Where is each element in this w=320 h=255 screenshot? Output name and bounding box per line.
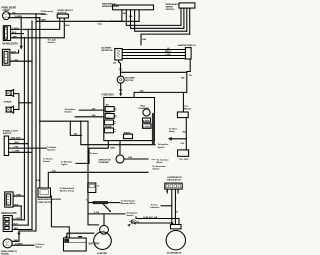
- svg-text:BLK: BLK: [65, 25, 70, 27]
- bc4 label: [14, 224, 19, 226]
- resistor wire bar: [93, 201, 108, 204]
- resistor bar stub: [88, 202, 93, 204]
- junction dot solenoid: [103, 213, 104, 214]
- junction dot lamp riser: [18, 230, 19, 231]
- to ignition switch label (right): [158, 143, 169, 149]
- blower ground ticks: [119, 89, 122, 90]
- entry labels: [65, 108, 96, 117]
- directional flasher feed: [119, 141, 121, 155]
- light switch: [4, 136, 8, 156]
- svg-text:S UNIT: S UNIT: [143, 126, 151, 128]
- light switch wire 2: [9, 143, 29, 145]
- svg-text:6 GA: 6 GA: [94, 211, 99, 214]
- hatched arrow head: [127, 224, 130, 227]
- junction dot on wire B: [21, 17, 22, 18]
- heater switch tail wire: [187, 59, 190, 72]
- svg-text:PARK (DIRECT): PARK (DIRECT): [1, 250, 17, 253]
- directional flasher circle: [116, 155, 124, 163]
- relay feed stub: [134, 92, 183, 97]
- inline connector box on starter feed: [88, 183, 96, 193]
- svg-text:P.A.: P.A.: [181, 142, 185, 145]
- junction dot pin2: [21, 33, 22, 34]
- stub label 18L: [74, 134, 78, 136]
- horn button leg label: [65, 25, 70, 27]
- wiper aux wire 4: [141, 34, 190, 45]
- svg-text:Washer Pump: Washer Pump: [60, 191, 75, 193]
- fuse aux label 1: [143, 119, 150, 122]
- svg-text:BAT: BAT: [183, 130, 188, 133]
- bottom lamp riser: [12, 231, 36, 241]
- label to light switch: [48, 39, 57, 45]
- svg-text:To Direct: To Direct: [35, 243, 44, 246]
- svg-text:Switch: Switch: [41, 13, 49, 16]
- junction dot horn trunk: [31, 102, 32, 103]
- horn H1: [5, 90, 14, 97]
- battery feed wire: [51, 196, 69, 238]
- svg-text:Block: Block: [157, 162, 164, 164]
- svg-text:Relay: Relay: [169, 131, 176, 133]
- svg-text:ALTERNATOR: ALTERNATOR: [167, 251, 182, 254]
- junction dot T4: [31, 21, 32, 22]
- junction dot bc3b: [21, 219, 22, 220]
- starter body stub: [88, 214, 99, 225]
- bat cable risers: [132, 217, 136, 223]
- blower ground wire: [120, 83, 122, 93]
- svg-text:To Distributor: To Distributor: [121, 199, 135, 202]
- label park/signal light: [2, 7, 17, 13]
- gen indicator label: [151, 204, 160, 209]
- label LW on trunk: [36, 180, 40, 182]
- resistor heater wire 4: [122, 58, 185, 60]
- horn common wire to trunk: [19, 102, 32, 104]
- svg-text:TAN WHT: TAN WHT: [11, 137, 21, 140]
- svg-text:RELAY: RELAY: [184, 108, 192, 111]
- junction dot bc4: [28, 224, 29, 225]
- fuse aux label 2: [143, 126, 151, 128]
- to distributor label: [121, 199, 136, 205]
- svg-text:PUMP MOTOR: PUMP MOTOR: [38, 202, 53, 204]
- junction dark label: [143, 216, 158, 219]
- pin1 wire to horn button: [11, 18, 60, 29]
- washer pump label: [60, 188, 75, 193]
- junction dot T3 anchor: [28, 29, 29, 30]
- wiper leg 1: [121, 10, 123, 21]
- blower feed label: [113, 62, 117, 64]
- junction connector label: [179, 158, 189, 161]
- fuse aux box: [143, 118, 151, 122]
- marker ground wire: [10, 50, 19, 53]
- wire 16 label: [176, 211, 179, 213]
- ls wire2 label: [15, 142, 20, 144]
- svg-text:L GRN: L GRN: [12, 28, 19, 30]
- svg-text:A/C: A/C: [106, 104, 110, 107]
- horn branch arrow: [168, 137, 172, 141]
- ignition feed wire: [81, 121, 155, 145]
- hatched arrow to ignition: [130, 219, 139, 224]
- junction dot bc5: [31, 229, 32, 230]
- fuse radio label: [124, 131, 131, 134]
- pin2 label: [12, 32, 17, 34]
- fuse box entry wire 2: [75, 116, 104, 118]
- wire A stub to electrical switch: [36, 13, 45, 15]
- svg-text:HORNS: HORNS: [4, 102, 12, 104]
- svg-text:To Generator: To Generator: [152, 165, 165, 168]
- resistor heater wire 1: [122, 49, 185, 51]
- marker connector LH lower: [2, 49, 9, 65]
- svg-text:BATTERY: BATTERY: [89, 243, 100, 246]
- svg-text:HEADLIGHTS: HEADLIGHTS: [2, 42, 18, 45]
- bc2 wire label: [14, 204, 19, 206]
- svg-text:L GRN: L GRN: [12, 60, 19, 62]
- horn branch wire: [172, 138, 187, 140]
- bottom conn2 wire 1: [12, 219, 24, 221]
- svg-text:Signal: Signal: [35, 246, 42, 248]
- svg-text:18B: 18B: [14, 240, 18, 242]
- svg-text:Resistor Wire: Resistor Wire: [121, 202, 136, 205]
- svg-text:TO® SOL: TO® SOL: [179, 158, 189, 161]
- svg-text:BLK: BLK: [14, 224, 19, 226]
- horn button U1: [57, 14, 68, 18]
- label 18 BRN: [39, 19, 46, 21]
- light switch wire 3 to radio: [9, 147, 47, 149]
- svg-text:Lights: Lights: [61, 163, 68, 166]
- diagonal resistor tap: [103, 204, 110, 211]
- wire 18J: [48, 172, 148, 188]
- to ignition label upper right: [152, 165, 165, 171]
- bottom connector 1: [5, 192, 13, 207]
- blower feed wire with jog: [119, 60, 121, 76]
- blower resistor label: [102, 48, 113, 53]
- blower motor: [117, 76, 124, 83]
- horn relay label: [184, 105, 192, 111]
- svg-text:BLK: BLK: [14, 204, 19, 206]
- bat cable to alternator upper: [136, 219, 179, 225]
- bottom conn2 wire 2: [12, 224, 28, 226]
- regulator pin stubs: [167, 189, 178, 193]
- svg-text:RESISTOR: RESISTOR: [102, 50, 113, 52]
- bottom lamp wire 2: [12, 244, 34, 246]
- junction dot ls3: [39, 147, 40, 148]
- dark terminal bar: [152, 113, 155, 144]
- starter main wire: [88, 213, 125, 215]
- alternator regulator box: [165, 183, 182, 189]
- gen indicator branch: [161, 205, 172, 207]
- alternator circle: [166, 231, 185, 250]
- starter label: [97, 252, 107, 255]
- wiper motor label: [102, 4, 119, 9]
- svg-text:HEATER SWITCH: HEATER SWITCH: [178, 44, 196, 47]
- svg-text:MED 1: MED 1: [165, 51, 172, 53]
- alternator connector: [171, 225, 182, 229]
- fuse F2 label: [106, 112, 111, 114]
- junction connector box (right): [178, 150, 189, 156]
- svg-text:12V: 12V: [92, 108, 96, 110]
- bottom lamp wire labels: [14, 240, 23, 246]
- svg-text:HAZ: HAZ: [141, 104, 146, 107]
- wiper leg 5: [138, 10, 140, 21]
- svg-text:Switch: Switch: [152, 167, 160, 170]
- svg-text:WINDSHIELD WASHER: WINDSHIELD WASHER: [38, 198, 62, 201]
- trunk wire T6: [39, 18, 41, 188]
- bottom ground arrow: [17, 233, 20, 237]
- fuse box label: [102, 93, 115, 96]
- svg-text:MOTOR: MOTOR: [125, 80, 133, 82]
- label 18B: [12, 12, 22, 18]
- wiper leg 4: [135, 10, 187, 31]
- directional flasher label: [99, 159, 111, 164]
- light switch wire 1: [9, 138, 25, 140]
- svg-text:A SPK: A SPK: [143, 119, 150, 122]
- bottom lamp: [3, 239, 12, 248]
- junction dot bc2: [21, 205, 22, 206]
- to stop switch label: [43, 157, 53, 163]
- ls wire3 label: [15, 146, 20, 148]
- marker ground label: [12, 52, 17, 54]
- diagonal arrowhead: [109, 210, 111, 212]
- junction dot blower tee: [120, 72, 121, 73]
- pin2 wire to ground trunk: [11, 33, 24, 35]
- horn H1 wire: [14, 94, 19, 103]
- trunk wire T4: [31, 21, 33, 229]
- directional flasher feed label: [110, 147, 115, 149]
- windshield wiper washer motor: [113, 5, 154, 10]
- wiper leg 3: [131, 10, 184, 29]
- svg-text:GRN: GRN: [110, 147, 115, 149]
- svg-text:Speaker: Speaker: [47, 149, 55, 151]
- svg-text:FLASHER: FLASHER: [99, 161, 110, 164]
- svg-text:PPL: PPL: [15, 146, 20, 148]
- svg-text:LIGHT: LIGHT: [3, 9, 11, 12]
- junction dot T2 anchor: [24, 37, 25, 38]
- fuse aux box 2: [143, 124, 152, 129]
- fuse F4: [105, 128, 114, 133]
- svg-text:To Junction: To Junction: [157, 159, 170, 162]
- alternator label: [167, 251, 182, 254]
- wiper leg labels: [123, 12, 133, 18]
- fuse box entry wire 1: [79, 109, 104, 111]
- regulator pin wire 2: [171, 189, 173, 224]
- blower motor label: [125, 78, 135, 83]
- svg-text:To Ignition: To Ignition: [127, 211, 138, 214]
- pa label: [181, 142, 185, 145]
- flasher output label: [128, 156, 132, 159]
- junction dot ls2: [28, 143, 29, 144]
- lamp wire destination label: [35, 243, 44, 249]
- svg-text:FUSE BOX: FUSE BOX: [102, 93, 115, 96]
- starter solenoid circle: [100, 225, 109, 234]
- svg-text:BLK: BLK: [12, 52, 17, 54]
- pin3 wire to horn button right leg: [11, 18, 65, 38]
- fuse F4 label: [105, 126, 112, 128]
- horn branch label: [169, 128, 178, 133]
- junction dot starter feed: [39, 121, 40, 122]
- solenoid drop wire: [103, 214, 105, 226]
- ls wire4 label: [13, 151, 20, 153]
- resistor bar label: [86, 198, 89, 201]
- to ignition switch label bottom: [127, 211, 138, 217]
- alternator regulator label: [167, 176, 182, 182]
- label to electrical switch: [41, 10, 54, 16]
- bottom conn1 wire 1: [13, 195, 24, 197]
- svg-text:BUTTON: BUTTON: [58, 12, 67, 14]
- horn relay output wire: [185, 118, 187, 150]
- inline connector label: [97, 185, 100, 187]
- svg-text:Indicator: Indicator: [151, 206, 160, 209]
- wiper switch legs: [181, 8, 190, 34]
- svg-text:To trans: To trans: [90, 152, 99, 155]
- svg-text:16A: 16A: [142, 38, 146, 41]
- svg-text:SWITCH: SWITCH: [3, 133, 12, 135]
- junction dot marker2: [31, 61, 32, 62]
- light switch label: [3, 129, 19, 135]
- junction dot wiper leg5: [138, 21, 139, 22]
- ground arrow G1: [20, 46, 23, 50]
- label 18J: [52, 171, 56, 173]
- fuse F1: [105, 107, 114, 112]
- horns label: [4, 102, 12, 104]
- heater switch label: [178, 44, 196, 47]
- fuse F1 label: [106, 104, 110, 107]
- svg-text:12V: 12V: [113, 62, 117, 64]
- svg-text:BLK: BLK: [15, 142, 20, 144]
- relay feed labels: [181, 75, 193, 80]
- svg-text:SWITCH: SWITCH: [166, 9, 175, 11]
- svg-text:Switch: Switch: [127, 214, 135, 217]
- junction dot ls4: [31, 152, 32, 153]
- bottom lamp label: [1, 250, 17, 255]
- wiper leg 1 wire left: [110, 20, 122, 22]
- svg-text:TAN: TAN: [14, 227, 19, 230]
- horn button label: [58, 10, 74, 14]
- svg-text:L GRN: L GRN: [13, 151, 20, 153]
- svg-text:14A: 14A: [181, 77, 185, 80]
- wiper switch label: [166, 4, 180, 11]
- hazard flasher circle: [143, 109, 150, 116]
- to junction block label: [157, 159, 170, 165]
- wiper aux label: [142, 38, 146, 41]
- ls wire1 label: [11, 137, 21, 140]
- starter motor circle: [94, 232, 112, 250]
- svg-text:To Electrical: To Electrical: [41, 10, 54, 13]
- ground wire from lamp dot: [20, 18, 22, 46]
- starter feed wire from trunk: [40, 121, 88, 214]
- horn relay feed wire: [121, 72, 187, 112]
- svg-text:HEADLIGHTS: HEADLIGHTS: [1, 212, 17, 215]
- svg-text:18A: 18A: [128, 156, 132, 159]
- svg-text:TAN: TAN: [13, 35, 18, 38]
- relay feed stub label: [140, 90, 144, 93]
- flasher output wire: [124, 158, 148, 160]
- wiper switch: [179, 3, 195, 8]
- resistor heater wire 2: [122, 52, 185, 54]
- svg-text:14 BLK/12 GA: 14 BLK/12 GA: [143, 216, 158, 219]
- to radio label: [47, 147, 57, 152]
- svg-text:FLASHER: FLASHER: [139, 107, 150, 110]
- horn relay box: [177, 112, 188, 118]
- svg-text:18 BRN: 18 BRN: [15, 244, 23, 246]
- pin3 label: [13, 35, 18, 38]
- bc5 label: [14, 227, 19, 230]
- washer label dark: [38, 198, 62, 204]
- regulator pin labels: [166, 191, 177, 200]
- svg-text:BLK: BLK: [12, 32, 17, 34]
- trans label: [90, 152, 99, 155]
- svg-text:Switch: Switch: [48, 41, 56, 44]
- bc3 label: [14, 218, 21, 220]
- pin1 wire label: [12, 28, 19, 30]
- resistor heater wire 3: [122, 55, 185, 57]
- starter wire label: [94, 211, 99, 214]
- horn H2 wire: [14, 103, 19, 110]
- junction block dash: [152, 159, 156, 161]
- junction dot horn common: [18, 102, 19, 103]
- trunk wire T5: [35, 21, 37, 231]
- svg-text:To Ignition: To Ignition: [65, 108, 76, 111]
- blower ground arrow: [119, 93, 122, 96]
- wire B lamp bottom terminal: [10, 17, 40, 19]
- bottom connector 2: [3, 216, 12, 232]
- horn H2: [5, 106, 14, 113]
- label headlights: [2, 42, 18, 45]
- svg-text:6A: 6A: [86, 198, 89, 201]
- svg-text:30A: 30A: [140, 90, 144, 93]
- fuse radio: [124, 134, 133, 139]
- blower connector ticks: [119, 69, 122, 70]
- trunk wire T3: [27, 29, 29, 225]
- blower resistor: [115, 49, 122, 61]
- svg-text:ALTERNATOR: ALTERNATOR: [167, 176, 182, 179]
- svg-text:To Ignition: To Ignition: [158, 143, 169, 146]
- hazard flasher label: [139, 104, 150, 110]
- resistor wire lead: [108, 202, 120, 204]
- bc1 wire label: [14, 195, 21, 197]
- marker wire 2: [10, 60, 32, 62]
- fuse F2: [105, 114, 114, 119]
- wire horn feed y21.3: [36, 20, 139, 22]
- fuse box outline: [104, 98, 155, 141]
- battery label: [89, 243, 100, 246]
- heater switch: [185, 48, 191, 59]
- svg-text:relay: relay: [97, 23, 103, 25]
- bottom conn1 wire 2: [13, 205, 21, 207]
- bat label: [183, 130, 188, 133]
- washer pump box: [38, 188, 51, 197]
- bat cable to alternator lower: [132, 223, 173, 225]
- svg-text:RADIO: RADIO: [124, 131, 131, 134]
- junction dot ls1: [24, 139, 25, 140]
- marker wire 2 label: [12, 60, 19, 62]
- drop wire stub 18L: [70, 121, 81, 135]
- battery: [64, 237, 87, 252]
- regulator pin wire 3: [174, 189, 176, 224]
- trunk wire T2: [23, 38, 25, 220]
- light switch wire 4: [9, 151, 32, 153]
- fuse F3 label: [105, 118, 110, 120]
- svg-text:HTR: HTR: [105, 118, 110, 120]
- wire A lamp top terminal to jog: [10, 13, 36, 15]
- svg-text:30A: 30A: [92, 114, 96, 117]
- svg-text:REGULATOR: REGULATOR: [167, 178, 181, 181]
- backup lights wire: [76, 141, 108, 164]
- svg-text:Switch: Switch: [158, 146, 166, 149]
- wire A jog down: [35, 14, 37, 21]
- fuse pins: [114, 108, 117, 131]
- svg-text:L GRN: L GRN: [14, 218, 21, 220]
- fuse F3: [105, 120, 114, 125]
- svg-text:Switch: Switch: [43, 160, 51, 163]
- headlight connector LH: [3, 26, 10, 41]
- junction dot bc3: [24, 219, 25, 220]
